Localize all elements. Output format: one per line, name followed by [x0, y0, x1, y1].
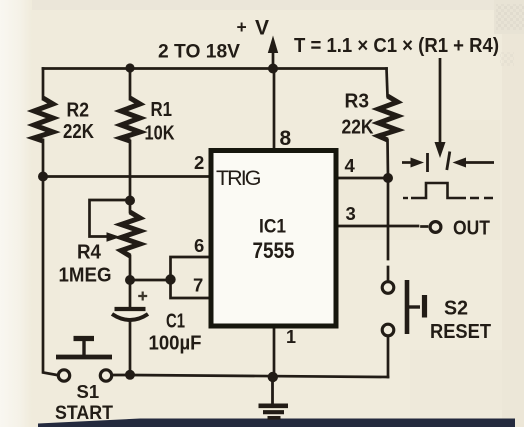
svg-text:100µF: 100µF	[149, 333, 202, 355]
svg-text:22K: 22K	[63, 120, 94, 143]
svg-text:2: 2	[194, 152, 204, 173]
svg-text:RESET: RESET	[430, 321, 491, 343]
svg-text:R3: R3	[345, 91, 370, 113]
svg-text:1MEG: 1MEG	[59, 265, 112, 287]
svg-text:6: 6	[194, 235, 204, 256]
svg-text:8: 8	[280, 127, 292, 150]
svg-text:7: 7	[193, 275, 203, 296]
svg-text:10K: 10K	[145, 122, 175, 145]
svg-text:1: 1	[286, 327, 296, 347]
svg-text:2 TO 18V: 2 TO 18V	[158, 42, 240, 63]
svg-text:S1: S1	[77, 381, 100, 402]
svg-text:7555: 7555	[253, 238, 295, 263]
svg-text:22K: 22K	[342, 116, 374, 139]
svg-text:R1: R1	[151, 99, 173, 121]
svg-text:START: START	[55, 402, 113, 424]
svg-text:3: 3	[346, 203, 356, 224]
svg-text:4: 4	[345, 155, 356, 176]
svg-text:S2: S2	[444, 298, 468, 320]
svg-text:R4: R4	[77, 242, 102, 264]
svg-text:C1: C1	[166, 311, 185, 333]
svg-text:R2: R2	[67, 100, 90, 122]
svg-text:IC1: IC1	[259, 216, 286, 238]
svg-text:OUT: OUT	[453, 218, 490, 240]
svg-text:TRIG: TRIG	[216, 166, 262, 190]
svg-text:V: V	[255, 17, 269, 40]
svg-text:T = 1.1 × C1 × (R1 + R4): T = 1.1 × C1 × (R1 + R4)	[294, 35, 499, 57]
svg-text:+: +	[237, 17, 247, 37]
